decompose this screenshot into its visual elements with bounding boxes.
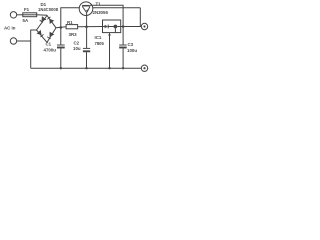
- svg-text:C1: C1: [46, 41, 52, 46]
- svg-text:IC1: IC1: [95, 35, 102, 40]
- svg-text:C3: C3: [128, 42, 134, 47]
- svg-text:10u: 10u: [73, 46, 81, 51]
- svg-text:3R3: 3R3: [69, 32, 78, 37]
- svg-text:AC In: AC In: [4, 25, 16, 30]
- svg-text:4700u: 4700u: [44, 47, 57, 52]
- svg-text:2N3055: 2N3055: [93, 10, 109, 15]
- svg-text:R1: R1: [67, 20, 73, 25]
- svg-text:1N4C0008: 1N4C0008: [38, 7, 59, 12]
- svg-text:C2: C2: [74, 40, 80, 45]
- svg-text:5A: 5A: [23, 18, 29, 23]
- svg-text:F1: F1: [24, 7, 30, 12]
- svg-text:T1: T1: [96, 2, 102, 7]
- svg-text:7805: 7805: [95, 41, 105, 46]
- svg-text:100u: 100u: [127, 48, 137, 53]
